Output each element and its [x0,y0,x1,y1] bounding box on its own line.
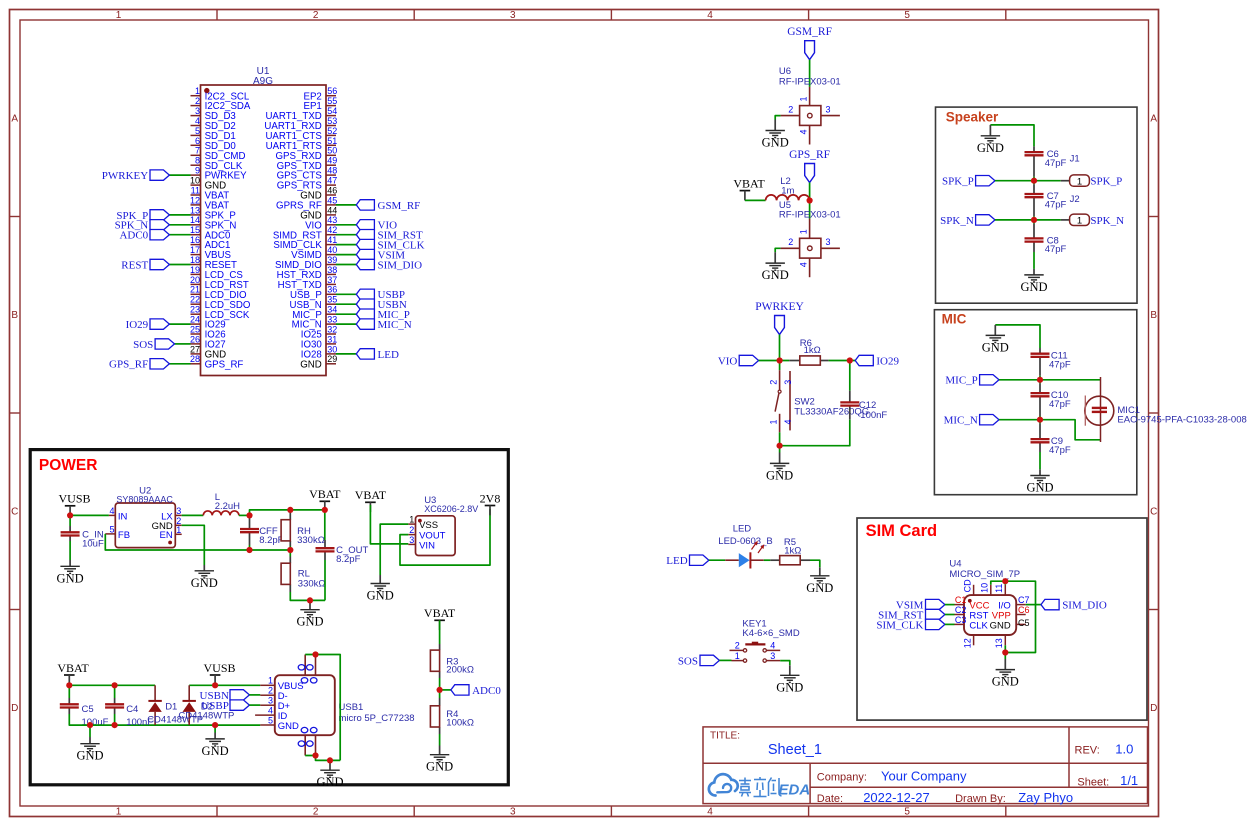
capacitor C6 [1025,152,1044,155]
svg-text:30: 30 [327,344,337,354]
wire to GND [779,446,781,453]
wire GND to C11 [995,325,1040,348]
svg-text:GPS_RF: GPS_RF [789,149,830,161]
svg-text:33: 33 [327,315,337,325]
power flag VBAT (U2 out) [309,487,341,511]
port ADC0 [451,685,501,697]
wire U1 to SIM_CLK [336,244,356,246]
svg-text:A9G: A9G [253,76,273,87]
svg-text:19: 19 [190,265,200,275]
capacitor C8 [1025,238,1044,241]
wire R4 to GND [439,734,441,746]
wire to SW2 pin2 [779,361,781,371]
svg-text:47pF: 47pF [1049,445,1071,456]
capacitor C5 [60,704,79,707]
wire VBAT rail bottom [69,684,155,686]
RL labels [298,569,326,590]
svg-text:GND: GND [762,136,789,150]
connector U6 RF-IPEX03-01 [781,87,840,145]
svg-text:3: 3 [825,237,830,247]
svg-text:GPS_RF: GPS_RF [109,359,148,371]
D2 labels [178,701,234,721]
capacitor C12 [840,402,859,405]
svg-text:VBAT: VBAT [309,487,341,501]
wire LED port to LED [709,559,725,561]
GND stem mic top [994,325,996,335]
C11 pin lines [1039,348,1041,354]
port VIO [718,355,759,367]
svg-text:2: 2 [268,686,273,696]
SIM Card section box [857,518,1147,720]
svg-text:43: 43 [327,215,337,225]
U1 pin stubs [191,96,337,364]
port PWRKEY [102,170,170,182]
resistor R5 [780,556,801,565]
R3 labels [446,656,474,675]
svg-text:47pF: 47pF [1045,244,1067,255]
svg-text:Drawn By:: Drawn By: [955,793,1006,805]
svg-text:24: 24 [190,315,200,325]
svg-text:16: 16 [190,235,200,245]
svg-text:SIM_DIO: SIM_DIO [1062,600,1107,612]
svg-text:Date:: Date: [817,793,843,805]
wire U1 to VSIM [336,254,356,256]
port IO29 [126,319,170,331]
wire C9 to GND [1039,452,1041,469]
switch KEY1 K4-6x6_SMD [730,641,781,663]
svg-text:GND: GND [278,721,299,732]
svg-text:Zay Phyo: Zay Phyo [1018,790,1073,805]
ground U6 [766,131,785,138]
wire VSS to GND [380,524,408,575]
wire VBAT to C5 [68,685,70,698]
wire U2 GND down [182,525,205,565]
svg-text:4: 4 [195,116,200,126]
wire to C4 [114,685,116,698]
svg-text:52: 52 [327,126,337,136]
svg-text:7: 7 [195,146,200,156]
svg-text:1: 1 [116,10,122,21]
wire SPK_N [995,219,1061,221]
svg-text:200kΩ: 200kΩ [446,664,474,675]
svg-text:34: 34 [327,305,337,315]
svg-text:54: 54 [327,106,337,116]
U3 pin-1 dot [418,519,422,523]
wire R3 to R4 [439,678,441,698]
svg-text:2: 2 [769,380,779,385]
port LED [666,555,709,567]
wire SIM_CLK [945,623,955,625]
C4 pin lines [114,698,116,704]
svg-text:ADC0: ADC0 [119,230,148,242]
U3 pin numbers and names [409,515,445,552]
svg-text:47pF: 47pF [1045,158,1067,169]
wire VBAT to L2 [745,199,766,201]
capacitor C10 [1031,393,1050,396]
port SPK_N [940,215,995,227]
U2 pin-1 dot [168,541,172,545]
svg-text:GND: GND [316,775,343,789]
resistor R6 [800,356,821,365]
wire VBAT to R3 [439,620,441,644]
resistor RL [281,563,290,584]
wire C8 to GND [1033,252,1035,269]
svg-text:47: 47 [327,176,337,186]
C5 pin lines [68,698,70,704]
ground KEY1 [780,675,799,682]
wire U1 to SIM_RST [336,234,356,236]
port SPK_P [116,210,169,222]
svg-text:3: 3 [176,506,181,516]
port SIM_CLK [876,619,945,631]
C_IN labels [82,529,104,549]
U4 pin names [969,601,1011,632]
port SIM_CLK [356,239,424,251]
svg-text:2: 2 [195,96,200,106]
wire PWRKEY to U1 [169,174,190,176]
svg-text:Speaker: Speaker [946,109,999,124]
KEY1 labels [742,618,799,639]
svg-text:VSS: VSS [419,520,438,531]
svg-text:5: 5 [268,715,273,725]
resistor R4 [430,706,439,727]
svg-text:13: 13 [994,638,1004,648]
svg-text:10: 10 [979,583,989,593]
svg-text:38: 38 [327,265,337,275]
svg-text:IN: IN [118,511,128,522]
ground R5 [810,576,829,583]
wire LED to R5 [764,559,771,561]
svg-text:GND: GND [1020,280,1047,294]
svg-text:LED: LED [733,523,752,534]
svg-text:2022-12-27: 2022-12-27 [863,790,930,805]
U6 GND stem [774,120,776,131]
svg-text:8: 8 [195,156,200,166]
svg-text:VBAT: VBAT [424,606,456,620]
svg-text:4: 4 [770,641,775,651]
wire LX to L [182,514,204,516]
svg-text:15: 15 [190,225,200,235]
svg-text:50: 50 [327,146,337,156]
U2 labels [116,485,173,504]
wire U1 to USBP [336,293,356,295]
svg-text:D: D [1150,703,1157,714]
U1 left pin numbers and names [190,86,251,370]
C7 top pin [1033,184,1035,194]
svg-text:GND: GND [300,359,322,370]
svg-text:CLK: CLK [969,620,988,631]
CFF pin lines [249,515,251,529]
svg-text:35: 35 [327,295,337,305]
wire GND to C6 [990,125,1034,146]
U4 pin-1 dot [968,599,972,603]
svg-text:40: 40 [327,245,337,255]
svg-text:GND: GND [426,760,453,774]
svg-text:GND: GND [762,268,789,282]
port SOS [133,339,174,351]
resistor R3 [430,650,439,671]
wire SW2 pin1 down [779,432,781,445]
svg-text:GND: GND [1026,481,1053,495]
svg-text:D: D [11,703,18,714]
svg-text:1: 1 [1077,176,1082,187]
svg-text:53: 53 [327,116,337,126]
MIC section box [934,310,1136,495]
wire REST to U1 [169,264,190,266]
C10 pin lines [1039,396,1041,416]
regulator U2 body SY8089AAAC [115,503,175,548]
microphone MIC1 [1085,377,1114,442]
wire R6 to IO29 [829,360,856,362]
U2 pin numbers and names [109,506,181,541]
wire GND tap B [214,725,216,732]
svg-text:46: 46 [327,185,337,195]
wire U1 to USBN [336,303,356,305]
svg-text:VIO: VIO [718,355,738,367]
title block texts [710,730,1138,805]
svg-text:47pF: 47pF [1045,200,1067,211]
svg-text:VIN: VIN [419,540,435,551]
svg-text:31: 31 [327,334,337,344]
ground rail A [80,744,99,751]
wire C12 to GND node [780,420,850,446]
svg-text:8.2pF: 8.2pF [336,554,360,565]
wire SIM_RST [945,614,955,616]
svg-text:U4: U4 [949,559,961,570]
svg-text:GND: GND [990,620,1011,631]
port GPS_RF [109,359,169,371]
wire U1 to MIC_N [336,323,356,325]
svg-text:SIM Card: SIM Card [866,522,938,540]
svg-text:SOS: SOS [133,339,153,351]
U4 pin numbers [955,579,1030,648]
svg-text:55: 55 [327,96,337,106]
U4 pin stubs [955,585,1026,646]
svg-text:GND: GND [977,141,1004,155]
Speaker section box [936,107,1138,303]
svg-text:49: 49 [327,156,337,166]
svg-text:GND: GND [367,589,394,603]
RH labels [297,526,325,546]
R5 pin lines [770,559,779,561]
svg-text:4: 4 [799,130,809,135]
port SPK_N [115,220,170,232]
svg-text:A: A [11,114,18,125]
wire IO29 to C12 [849,361,851,391]
wire U1 to LED [336,353,356,355]
wire SPK_N to U1 [169,224,190,226]
svg-text:C2: C2 [955,605,967,615]
resistor RH [281,520,290,541]
GND stem U4 [1004,659,1006,670]
svg-text:GPS_RF: GPS_RF [205,359,244,370]
svg-text:45: 45 [327,195,337,205]
wire SPK_P to U1 [169,214,190,216]
svg-text:5: 5 [195,126,200,136]
ground USB1 [320,770,339,777]
LED LED1 symbol [725,541,764,569]
port USBP [201,700,249,712]
J2 pin line [1061,219,1070,221]
connector U4 body MICRO_SIM_7P [964,595,1016,635]
svg-text:100uF: 100uF [82,717,109,728]
svg-text:Company:: Company: [817,772,867,784]
svg-text:RF-IPEX03-01: RF-IPEX03-01 [779,76,841,87]
svg-text:C1: C1 [955,595,967,605]
svg-text:MIC_P: MIC_P [945,375,977,387]
ground mic top [986,335,1005,342]
switch SW2 TL3330AF260QG [769,370,793,432]
wire shield top loop [305,655,340,761]
wire GND tap A [89,725,91,737]
svg-text:21: 21 [190,285,200,295]
svg-text:2: 2 [313,807,319,818]
U3 labels [424,495,478,514]
ground divider [300,610,319,617]
svg-text:11: 11 [191,185,200,195]
svg-text:TITLE:: TITLE: [710,730,740,741]
USB1 pin stubs [255,685,275,725]
U1 right pin numbers and names [264,86,337,370]
connector J1 [1070,175,1123,188]
power flag VUSB (C_IN) [58,492,90,516]
wire U1 to SIM_DIO [336,264,356,266]
ground R4 [430,755,449,762]
wire USBP to USB1 [249,704,260,706]
SW2 labels [794,396,869,417]
svg-text:1: 1 [769,419,779,424]
ground speaker bottom [1024,275,1043,282]
GND stem R4 [439,746,441,755]
port REST [121,259,169,271]
svg-text:GSM_RF: GSM_RF [378,200,421,212]
svg-text:1: 1 [176,525,181,535]
port IO29 [855,355,899,367]
svg-text:27: 27 [190,344,200,354]
net flag GSM_RF [787,26,832,60]
svg-text:28: 28 [190,354,200,364]
wire GPS_RF flag to U5 pin1 [809,183,811,219]
U4 labels [949,559,1020,581]
svg-text:12: 12 [962,638,972,648]
svg-text:44: 44 [327,205,337,215]
wire CFF to VBAT rail [250,510,325,516]
svg-text:D1: D1 [165,701,177,712]
svg-text:2.2uH: 2.2uH [215,501,240,512]
C9 labels [1049,436,1071,456]
regulator U3 body XC6206-2.8V [416,516,456,556]
svg-text:C5: C5 [82,704,94,715]
C12 labels [859,400,888,421]
frame column ticks top [217,10,1006,817]
svg-text:9: 9 [195,166,200,176]
port SOS [678,655,720,667]
svg-text:1: 1 [268,676,273,686]
U5 labels [779,200,841,221]
frame row ticks [10,217,1159,610]
wire SPK_P to C7 [1033,181,1035,185]
svg-text:1: 1 [735,651,740,661]
POWER section box [30,450,508,785]
svg-text:B: B [11,310,18,321]
port USBN [356,299,407,311]
svg-text:26: 26 [190,334,200,344]
R4 pin lines [439,698,441,706]
wire MIC_P to mic [999,379,1101,381]
svg-text:4: 4 [109,506,114,516]
CFF labels [259,526,283,546]
svg-text:4: 4 [707,807,713,818]
svg-text:39: 39 [327,255,337,265]
wire MIC_P to C10 [1039,380,1041,384]
svg-text:IO29: IO29 [126,319,149,331]
wire FB rail [105,534,290,550]
port SIM_DIO [356,259,422,271]
MIC1 labels [1117,405,1246,426]
C_IN pin lines [69,526,71,532]
wire U6 pin2 to GND [775,116,780,120]
C7 labels [1045,191,1067,211]
svg-text:LED: LED [666,555,687,567]
connector USB1 body micro 5P_C77238 [275,675,335,735]
U1 pin-1 dot [204,88,209,93]
svg-text:330kΩ: 330kΩ [298,578,326,589]
svg-text:EAO-9745-PFA-C1033-28-008: EAO-9745-PFA-C1033-28-008 [1117,414,1246,425]
wire SOS to U1 [175,343,191,345]
svg-text:20: 20 [190,275,200,285]
inductor L2 1m [766,195,810,201]
port USBN [200,690,250,702]
svg-text:41: 41 [327,235,337,245]
svg-text:SPK_P: SPK_P [1090,176,1122,188]
RH pin lines [289,510,291,520]
svg-text:18: 18 [190,255,200,265]
svg-text:GND: GND [191,576,218,590]
svg-text:C4: C4 [126,704,138,715]
svg-text:SIM_DIO: SIM_DIO [378,259,423,271]
port SIM_RST [356,230,423,242]
ground speaker top [981,136,1000,143]
port ADC0 [119,230,169,242]
wire C11 to MIC_P node [1039,376,1041,380]
wire C6 to SPK_P node [1033,177,1035,181]
ground U3 [371,584,390,591]
svg-text:A: A [1150,114,1157,125]
connector U5 RF-IPEX03-01 [781,219,840,278]
svg-text:GND: GND [766,468,793,482]
GND stem U3 [379,575,381,583]
svg-text:GND: GND [296,615,323,629]
svg-text:GND: GND [202,744,229,758]
svg-text:Sheet_1: Sheet_1 [768,742,822,758]
svg-text:EN: EN [159,530,172,541]
wire RL to C_OUT bottom [290,592,325,600]
GND stem speaker bottom [1033,269,1035,275]
port GSM_RF [356,200,420,212]
U5 GND stem [774,252,776,263]
C10 labels [1049,390,1071,410]
svg-text:Your Company: Your Company [881,769,967,784]
wire C7 to SPK_N node [1033,216,1035,220]
wire MIC_N to mic [999,420,1101,440]
svg-text:47pF: 47pF [1049,359,1071,370]
wire KEY1 pin3 to GND [780,661,790,666]
svg-text:29: 29 [327,354,337,364]
svg-text:ADC0: ADC0 [472,685,501,697]
svg-text:SPK_N: SPK_N [940,215,974,227]
svg-text:micro 5P_C77238: micro 5P_C77238 [339,713,415,724]
junction dots layer [66,178,1043,764]
